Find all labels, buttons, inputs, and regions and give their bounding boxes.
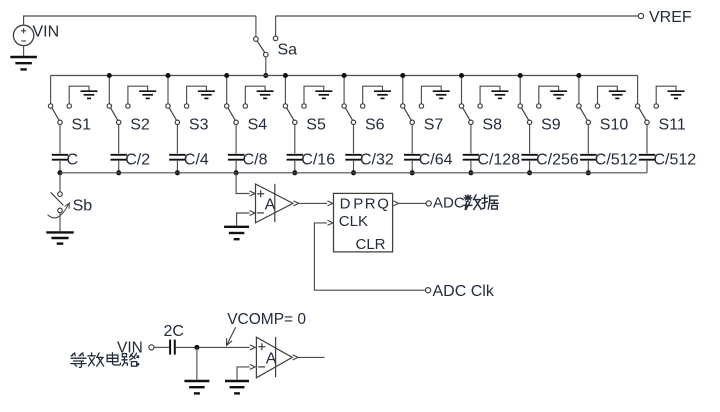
terminal ADC data (426, 201, 431, 206)
svg-text:C/256: C/256 (536, 152, 579, 169)
label S11 (659, 117, 686, 134)
label C/256 (536, 152, 579, 169)
ground (S10 upper contact) (595, 86, 626, 108)
junction (top bus / S3) (165, 73, 170, 78)
ground (S8 upper contact) (478, 86, 509, 108)
junction (top bus / S7) (400, 73, 405, 78)
switch S10 (577, 76, 591, 125)
label S10 (600, 117, 629, 134)
capacitor C/512 (cell 10) (580, 125, 596, 173)
ground (S2 upper contact) (126, 86, 156, 108)
label A (U1) (265, 196, 276, 213)
svg-text:S11: S11 (659, 117, 686, 134)
label Sb (73, 198, 93, 215)
comparator U1 (256, 184, 293, 223)
pin label CLR (356, 236, 386, 253)
wire U1 output to U2 D input (293, 201, 333, 206)
label S7 (424, 117, 444, 134)
switch S3 (166, 76, 180, 125)
label S9 (541, 117, 561, 134)
capacitor C/4 (cell 3) (169, 125, 185, 173)
wire ground to U3 - input (237, 364, 255, 379)
label S5 (306, 117, 326, 134)
junction (bottom bus / C cell 4) (234, 170, 239, 175)
junction (top bus / S9) (518, 73, 523, 78)
svg-text:C/2: C/2 (125, 152, 150, 169)
junction (bottom bus / C cell 1) (57, 170, 62, 175)
switch S8 (459, 76, 473, 125)
ground (S11 upper contact) (654, 86, 685, 108)
label S2 (130, 117, 150, 134)
label C/32 (360, 152, 394, 169)
svg-text:A: A (266, 350, 277, 367)
capacitor C/16 (cell 5) (287, 125, 303, 173)
ground (2C node) (184, 347, 209, 393)
switch S1 (48, 76, 62, 125)
pin label CLK (339, 213, 368, 230)
ground (S1 upper contact) (67, 86, 98, 108)
switch S4 (225, 76, 239, 125)
label S6 (365, 117, 385, 134)
svg-text:C/128: C/128 (477, 152, 520, 169)
label 2C (164, 323, 184, 340)
switch S7 (401, 76, 415, 125)
wire bottom bus to U1 + input (236, 173, 255, 196)
svg-text:VIN: VIN (117, 339, 143, 356)
ground (S3 upper contact) (184, 86, 214, 108)
svg-text:VREF: VREF (649, 9, 692, 26)
label C/8 (243, 152, 268, 169)
capacitor C/2 (cell 2) (111, 125, 127, 173)
wire Sa to VREF terminal (276, 15, 639, 17)
junction (top bus / S10) (576, 73, 581, 78)
svg-text:CLR: CLR (356, 236, 386, 253)
wire ground to U1 - input (237, 211, 255, 226)
switch Sa (254, 16, 278, 57)
junction (top bus / S4) (224, 73, 229, 78)
ground (S6 upper contact) (361, 86, 392, 108)
svg-text:S4: S4 (248, 117, 268, 134)
voltage source VIN (13, 25, 33, 45)
label C/64 (419, 152, 453, 169)
ground (S9 upper contact) (537, 86, 568, 108)
wire U2 Q output to ADC data terminal (393, 201, 426, 206)
label C/16 (301, 152, 335, 169)
label VIN (equivalent circuit) (117, 339, 143, 356)
label VCOMP= 0 with arrow (227, 311, 307, 345)
ground (S4 upper contact) (243, 86, 274, 108)
label S8 (482, 117, 502, 134)
label VREF (649, 9, 692, 26)
label VIN (33, 24, 60, 41)
switch S2 (107, 76, 121, 125)
ground (U3 - input) (225, 381, 249, 393)
top plate bus wire (51, 75, 638, 77)
svg-text:ADC: ADC (433, 195, 465, 212)
capacitor C/256 (cell 9) (521, 125, 537, 173)
wire VIN terminal to capacitor 2C (154, 346, 169, 348)
ground (S7 upper contact) (419, 86, 450, 108)
switch S9 (518, 76, 532, 125)
wire 2C to U3 + input (176, 345, 255, 350)
svg-text:2C: 2C (164, 323, 184, 340)
wire VIN source to switch Sa (24, 16, 256, 25)
svg-text:S3: S3 (189, 117, 209, 134)
svg-text:C/4: C/4 (184, 152, 209, 169)
flip-flop U2 (D / PR Q / CLK / CLR) (334, 193, 393, 252)
label C (67, 152, 79, 169)
svg-text:S9: S9 (541, 117, 561, 134)
svg-text:A: A (265, 196, 276, 213)
capacitor C/8 (cell 4) (228, 125, 244, 173)
svg-text:Sb: Sb (73, 198, 93, 215)
svg-text:C/32: C/32 (360, 152, 394, 169)
capacitor C/128 (cell 8) (463, 125, 479, 173)
capacitor C (cell 1) (52, 125, 68, 173)
junction (bottom bus / C cell 2) (116, 170, 121, 175)
terminal ADC Clk (426, 288, 431, 293)
svg-text:ADC Clk: ADC Clk (433, 283, 495, 300)
svg-text:C/512: C/512 (595, 152, 638, 169)
svg-text:C/16: C/16 (301, 152, 335, 169)
pin label D (340, 195, 351, 212)
ground (U1 - input) (224, 227, 249, 239)
svg-text:CLK: CLK (339, 213, 368, 230)
terminal VREF (638, 13, 643, 18)
junction (bottom bus / C cell 10) (586, 170, 591, 175)
junction (bottom bus / C cell 9) (527, 170, 532, 175)
svg-text:PRQ: PRQ (353, 195, 390, 212)
ground (S5 upper contact) (302, 86, 333, 108)
junction (top bus / S8) (459, 73, 464, 78)
label 等效电路: (71, 353, 139, 368)
junction (bottom bus / C cell 5) (292, 170, 297, 175)
junction (bottom bus / C cell 8) (468, 170, 473, 175)
svg-text:VCOMP= 0: VCOMP= 0 (227, 311, 306, 328)
junction (2C node / ground) (194, 345, 199, 350)
wire Sa to top plate bus (265, 57, 267, 76)
svg-text:S1: S1 (72, 117, 92, 134)
svg-text:S6: S6 (365, 117, 385, 134)
wire U3 output (293, 355, 325, 360)
junction (top bus / S5) (283, 73, 288, 78)
svg-text:Sa: Sa (278, 42, 298, 59)
junction (bottom bus / C cell 3) (175, 170, 180, 175)
switch S5 (283, 76, 297, 125)
switch S6 (342, 76, 356, 125)
svg-text:C/64: C/64 (419, 152, 453, 169)
label ADC Clk (433, 283, 495, 300)
label C/512 (654, 152, 697, 169)
switch S11 (635, 76, 649, 125)
svg-text:C/8: C/8 (243, 152, 268, 169)
label Sa (278, 42, 298, 59)
junction (top bus / S6) (342, 73, 347, 78)
capacitor C/32 (cell 6) (345, 125, 361, 173)
svg-text:S7: S7 (424, 117, 444, 134)
capacitor C/64 (cell 7) (404, 125, 420, 173)
pin label PRQ (353, 195, 390, 212)
label C/2 (125, 152, 150, 169)
label ADC数据 (433, 195, 498, 212)
switch Sb (48, 173, 70, 218)
wire ADC Clk terminal to U2 CLK input (314, 220, 425, 290)
svg-text:S5: S5 (306, 117, 326, 134)
svg-text:C/512: C/512 (654, 152, 697, 169)
svg-text:S2: S2 (130, 117, 150, 134)
junction (top bus / S2) (107, 73, 112, 78)
label C/4 (184, 152, 209, 169)
label A (U3) (266, 350, 277, 367)
ground (below VIN source) (10, 46, 37, 70)
label S1 (72, 117, 92, 134)
capacitor 2C (170, 340, 175, 355)
svg-text:C: C (67, 152, 79, 169)
junction (bottom bus / C cell 7) (410, 170, 415, 175)
comparator U3 (256, 337, 292, 378)
junction (Sa / top bus) (263, 73, 268, 78)
label C/128 (477, 152, 520, 169)
bottom plate bus wire (60, 172, 647, 174)
ground (below Sb) (46, 213, 74, 244)
svg-text:VIN: VIN (33, 24, 60, 41)
label S4 (248, 117, 268, 134)
svg-text:S8: S8 (482, 117, 502, 134)
capacitor C/512 (cell 11) (639, 125, 655, 173)
terminal VIN (equivalent circuit) (149, 345, 154, 350)
svg-text:D: D (340, 195, 351, 212)
junction (bottom bus / C cell 6) (351, 170, 356, 175)
label C/512 (595, 152, 638, 169)
svg-text:S10: S10 (600, 117, 629, 134)
label S3 (189, 117, 209, 134)
